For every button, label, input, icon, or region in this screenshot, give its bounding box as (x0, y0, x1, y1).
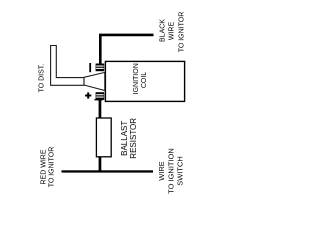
svg-text:BALLAST: BALLAST (120, 121, 129, 156)
svg-text:TO IGNITOR: TO IGNITOR (179, 12, 186, 53)
distributor wire hose (51, 46, 84, 86)
label: WIRE TO IGNITION SWITCH (157, 148, 184, 194)
ballast resistor (96, 118, 111, 157)
svg-text:IGNITION: IGNITION (133, 63, 140, 94)
wire: coil negative terminal to top run (black wire to ignitor) (100, 35, 153, 64)
svg-text:COIL: COIL (141, 72, 148, 88)
svg-text:WIRE: WIRE (157, 161, 166, 181)
coil tower boot (trapezoid) (84, 72, 105, 90)
svg-text:WIRE: WIRE (169, 22, 176, 41)
coil negative terminal (hatched) (96, 64, 105, 72)
label: BLACK WIRE TO IGNITOR (159, 12, 185, 53)
minus sign at negative terminal (89, 63, 91, 72)
svg-text:TO IGNITION: TO IGNITION (166, 148, 175, 194)
label: IGNITION COIL (133, 63, 148, 94)
coil positive terminal (hatched) (94, 92, 104, 100)
ignition coil body (105, 61, 184, 101)
svg-text:SWITCH: SWITCH (175, 156, 184, 186)
svg-text:RED WIRE: RED WIRE (41, 149, 48, 184)
svg-text:TO DIST.: TO DIST. (38, 64, 45, 93)
wire: coil positive terminal down to ballast resistor (99, 100, 102, 118)
svg-text:TO IGNITOR: TO IGNITOR (49, 147, 56, 188)
label: BALLAST RESISTOR (120, 118, 138, 159)
wire: ballast resistor down to bottom run (99, 157, 102, 172)
svg-text:RESISTOR: RESISTOR (129, 118, 138, 159)
svg-text:BLACK: BLACK (159, 19, 166, 42)
label: RED WIRE TO IGNITOR (41, 147, 56, 188)
bottom wire run (red wire / to ignition switch) (62, 170, 154, 172)
plus sign at positive terminal (85, 92, 91, 98)
